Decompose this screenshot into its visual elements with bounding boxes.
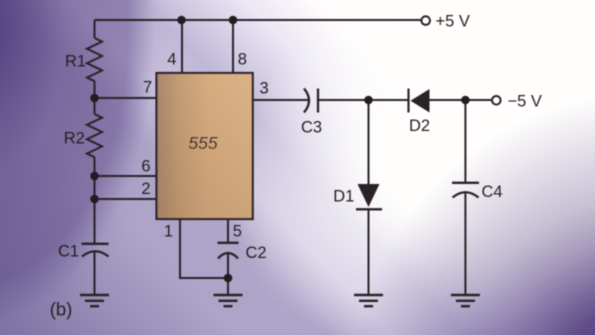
svg-text:C1: C1 (58, 243, 79, 261)
svg-text:D2: D2 (409, 117, 430, 135)
svg-text:555: 555 (188, 133, 217, 153)
svg-text:4: 4 (167, 51, 176, 69)
svg-text:−5 V: −5 V (508, 92, 542, 110)
svg-text:C3: C3 (301, 119, 322, 137)
svg-text:5: 5 (233, 223, 242, 241)
svg-text:(b): (b) (50, 299, 73, 320)
svg-text:D1: D1 (333, 188, 354, 206)
svg-text:7: 7 (143, 79, 152, 97)
svg-text:3: 3 (260, 80, 269, 98)
svg-text:1: 1 (164, 223, 173, 241)
svg-text:2: 2 (141, 180, 150, 198)
svg-text:C2: C2 (245, 244, 266, 262)
svg-text:R1: R1 (65, 53, 86, 71)
svg-text:+5 V: +5 V (436, 13, 470, 31)
svg-text:R2: R2 (64, 130, 85, 148)
svg-text:6: 6 (141, 158, 150, 176)
svg-text:C4: C4 (481, 183, 502, 201)
svg-text:8: 8 (238, 51, 247, 69)
